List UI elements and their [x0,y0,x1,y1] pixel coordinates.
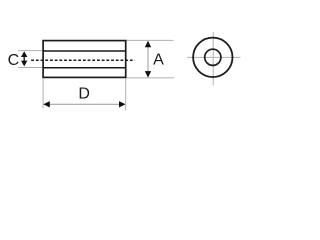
spacer body outline [43,41,126,78]
dimension arrow D stem [45,103,125,105]
dimension arrow D left head [43,101,50,107]
svg-text:C: C [8,52,20,69]
dimension arrow A down head [145,71,151,78]
extension line C top [18,50,46,52]
dimension arrow C down head [21,61,27,67]
extension line A bottom [127,77,175,79]
end view crosshair vertical [212,32,214,86]
extension line C bottom [18,67,46,69]
end view outer circle [193,38,232,77]
dimension arrow D right head [119,101,126,107]
bore line top [43,50,126,52]
svg-text:A: A [153,52,164,69]
dashed centerline [31,59,135,61]
dimension arrow C up head [21,51,27,57]
extension line D left [42,79,44,109]
end view crosshair horizontal [187,56,241,58]
end view inner circle [205,49,221,65]
dimension arrow A stem [147,42,149,77]
dimension arrow A up head [145,41,151,48]
extension line A top [127,39,174,41]
extension line D right [125,79,127,111]
svg-text:D: D [78,86,90,103]
dimension arrow C stem [23,53,25,65]
bore line bottom [43,67,126,69]
